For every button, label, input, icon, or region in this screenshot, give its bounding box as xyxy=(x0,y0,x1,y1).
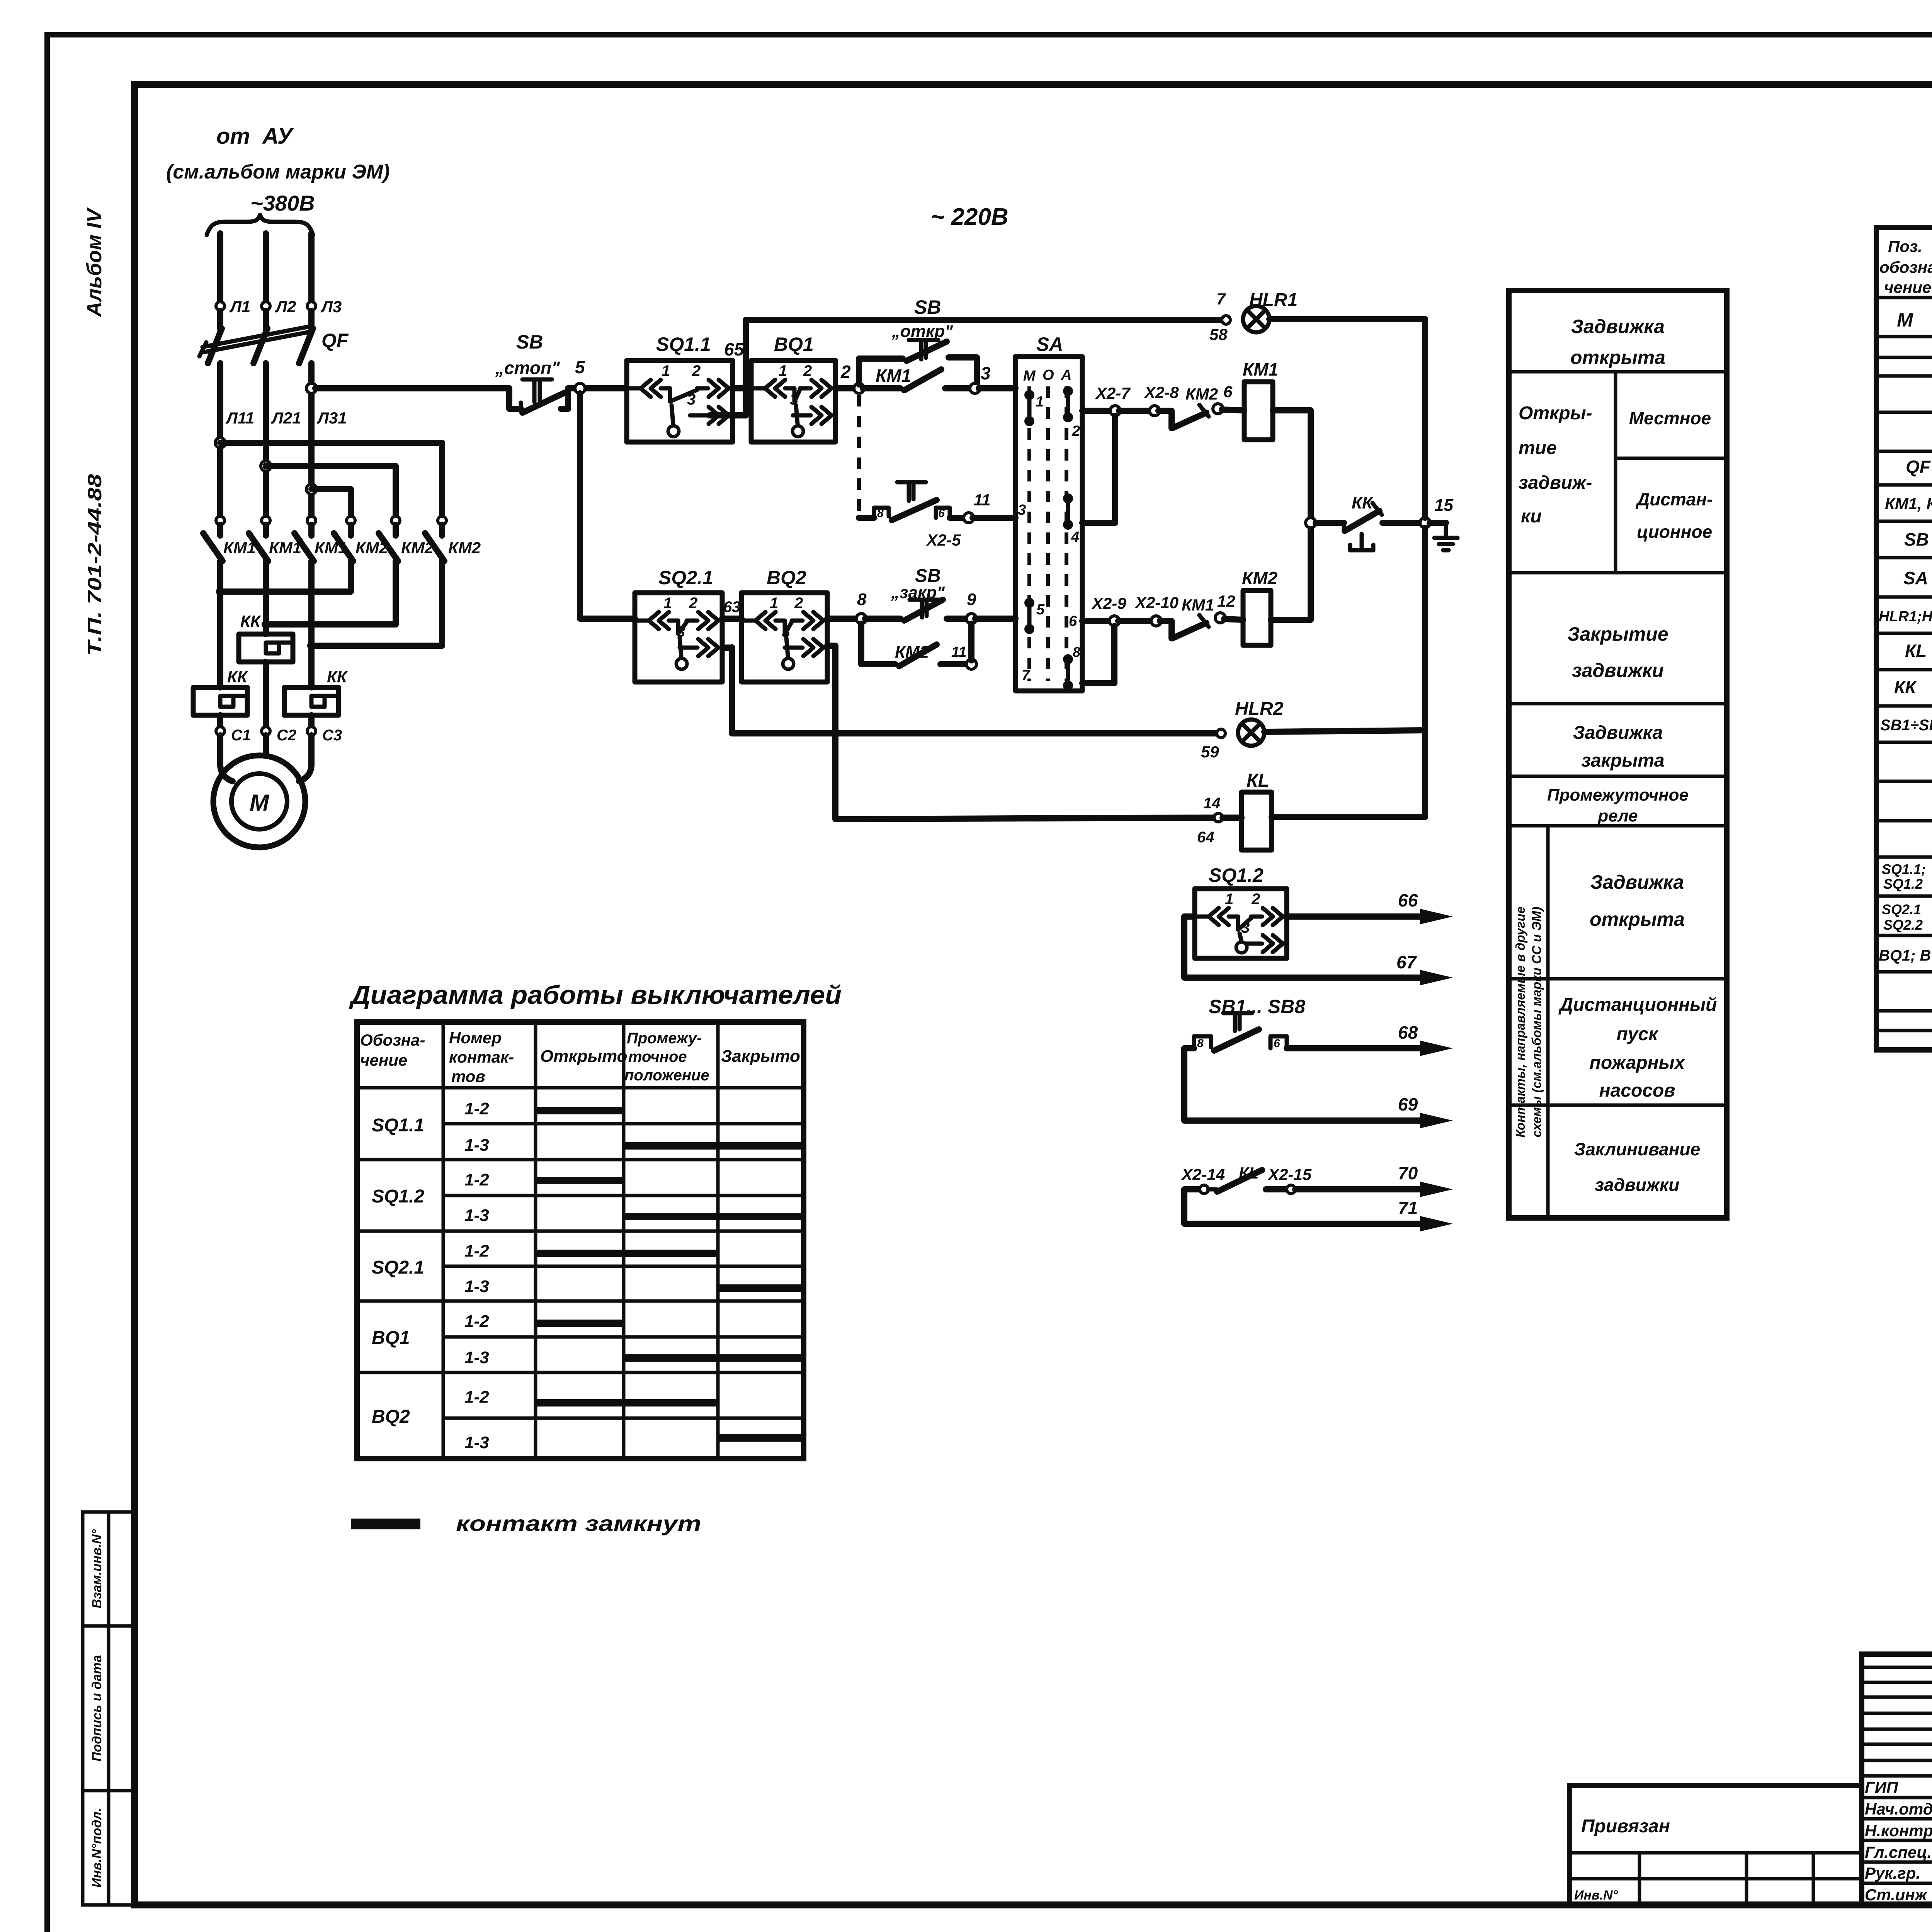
svg-text:Ст.инж: Ст.инж xyxy=(1865,1886,1928,1904)
svg-text:SA: SA xyxy=(1903,568,1928,588)
svg-text:реле: реле xyxy=(1597,806,1638,825)
svg-text:ВQ2: ВQ2 xyxy=(372,1406,410,1427)
svg-text:SA: SA xyxy=(1036,333,1063,355)
svg-text:задвижки: задвижки xyxy=(1572,660,1664,681)
svg-text:63: 63 xyxy=(723,599,741,616)
signature rows xyxy=(1865,1778,1932,1904)
node 9 xyxy=(966,590,1015,624)
svg-text:КМ1: КМ1 xyxy=(1243,359,1278,379)
pole link B xyxy=(262,561,396,629)
voltage label 380V xyxy=(250,191,315,215)
svg-text:Л2: Л2 xyxy=(275,298,296,316)
svg-text:ки: ки xyxy=(1521,506,1542,527)
svg-text:2: 2 xyxy=(1251,891,1260,908)
svg-text:КК: КК xyxy=(1352,493,1374,512)
svg-text:Н.контр: Н.контр xyxy=(1865,1821,1932,1840)
svg-text:1: 1 xyxy=(779,362,787,379)
function table texts xyxy=(1513,316,1717,1195)
svg-text:КК: КК xyxy=(327,668,348,686)
switching diagram title xyxy=(349,980,842,1010)
svg-text:М: М xyxy=(1023,368,1036,384)
svg-text:контакт замкнут: контакт замкнут xyxy=(456,1511,701,1536)
svg-text:обозна-: обозна- xyxy=(1879,258,1932,276)
ground 15 xyxy=(1420,496,1458,550)
wire SA to X2-9 xyxy=(1082,594,1126,626)
svg-text:1: 1 xyxy=(770,595,778,612)
svg-text:4: 4 xyxy=(1071,529,1079,545)
svg-text:положение: положение xyxy=(624,1067,709,1084)
node L11 L21 L31 labels xyxy=(225,409,347,427)
svg-text:КМ1: КМ1 xyxy=(223,539,256,557)
thermal relay KK heater pole2 xyxy=(239,612,293,726)
aux contact KM1 self-hold xyxy=(863,366,971,390)
svg-text:1-3: 1-3 xyxy=(464,1348,489,1367)
svg-text:А: А xyxy=(1061,367,1071,383)
svg-text:Закрыто: Закрыто xyxy=(721,1047,800,1066)
svg-text:58: 58 xyxy=(1209,325,1228,344)
svg-text:6: 6 xyxy=(1223,383,1233,401)
wire KM1 coil to common xyxy=(1273,410,1311,518)
svg-text:15: 15 xyxy=(1434,496,1453,515)
svg-text:3: 3 xyxy=(790,391,798,408)
svg-text:чение: чение xyxy=(360,1051,407,1069)
svg-text:Гл.спец.: Гл.спец. xyxy=(1865,1843,1932,1861)
wire 71 xyxy=(1184,1189,1453,1231)
svg-text:КМ2: КМ2 xyxy=(355,539,388,557)
limit switch SQ1.1 xyxy=(627,333,733,442)
svg-text:Нач.отд: Нач.отд xyxy=(1865,1800,1932,1818)
svg-text:3: 3 xyxy=(1018,502,1026,518)
attachment table xyxy=(1570,1786,1862,1905)
svg-text:КМ2: КМ2 xyxy=(1242,568,1278,588)
svg-text:3: 3 xyxy=(677,623,685,640)
svg-text:SB: SB xyxy=(516,331,543,353)
svg-text:КL: КL xyxy=(1905,641,1927,661)
wire node5 down to close rung xyxy=(580,393,635,619)
svg-text:1-2: 1-2 xyxy=(464,1099,489,1118)
svg-text:Привязан: Привязан xyxy=(1581,1816,1670,1837)
motor terminals C1 C2 C3 xyxy=(216,727,342,744)
svg-text:59: 59 xyxy=(1201,743,1219,761)
wire SA to X2-7 xyxy=(1082,384,1131,416)
node tap L3 to control xyxy=(306,383,316,393)
svg-text:КМ2: КМ2 xyxy=(401,539,434,557)
svg-text:насосов: насосов xyxy=(1599,1080,1675,1101)
svg-text:Х2-15: Х2-15 xyxy=(1267,1165,1312,1184)
svg-text:SQ1.1: SQ1.1 xyxy=(372,1115,424,1136)
svg-text:6: 6 xyxy=(938,507,945,520)
wire riser HLR2 xyxy=(732,647,1217,733)
svg-text:2: 2 xyxy=(1071,423,1080,439)
switching diagram row labels xyxy=(372,1099,489,1452)
svg-text:Номер: Номер xyxy=(449,1029,502,1047)
node 8 xyxy=(827,590,867,624)
svg-text:чение: чение xyxy=(1884,278,1931,296)
svg-text:2: 2 xyxy=(803,362,812,379)
wire BQ2-3 to KL rung xyxy=(827,646,1214,819)
label SB1...SB8 xyxy=(1209,996,1305,1017)
aux contact KM2 NC xyxy=(1158,383,1233,428)
svg-text:SВ1÷SВ8: SВ1÷SВ8 xyxy=(1880,717,1932,734)
svg-text:12: 12 xyxy=(1217,592,1235,610)
svg-text:2: 2 xyxy=(689,595,697,612)
pushbutton SB close xyxy=(865,566,968,621)
svg-text:С3: С3 xyxy=(322,727,342,744)
svg-text:тие: тие xyxy=(1519,438,1557,458)
svg-text:SQ1.2: SQ1.2 xyxy=(1209,864,1264,886)
svg-text:„стоп": „стоп" xyxy=(495,358,560,378)
svg-text:2: 2 xyxy=(794,595,803,612)
svg-text:Х2-9: Х2-9 xyxy=(1091,594,1126,612)
svg-text:Х2-8: Х2-8 xyxy=(1144,383,1179,401)
svg-text:Дистан-: Дистан- xyxy=(1635,489,1713,509)
svg-text:11: 11 xyxy=(951,644,966,660)
svg-text:Задвижка: Задвижка xyxy=(1571,316,1665,337)
wire L3 tap to SB stop xyxy=(315,385,509,391)
dashed wire node2 to SB1-SB8 xyxy=(857,395,861,518)
bracket X2-9 to SA contact8 xyxy=(1082,626,1114,683)
svg-text:задвиж-: задвиж- xyxy=(1519,473,1592,493)
pushbutton SB open bypass xyxy=(859,296,977,388)
svg-text:1-3: 1-3 xyxy=(464,1433,489,1452)
svg-text:тов: тов xyxy=(451,1067,485,1085)
wire SQ2.1-3 to HLR2 rung xyxy=(722,645,732,651)
svg-text:ционное: ционное xyxy=(1637,522,1712,542)
wire L2 down xyxy=(263,386,269,515)
svg-text:~380В: ~380В xyxy=(250,191,315,215)
svg-text:пожарных: пожарных xyxy=(1590,1053,1686,1073)
svg-text:С1: С1 xyxy=(231,727,251,744)
crosswire L2 to KM2 pole xyxy=(261,461,396,515)
svg-text:1-3: 1-3 xyxy=(464,1136,489,1155)
thermal relay KK heater pole1 xyxy=(193,592,248,726)
svg-text:КМ1: КМ1 xyxy=(315,539,347,557)
svg-text:КМ1, КМ2: КМ1, КМ2 xyxy=(1885,495,1932,513)
svg-text:М: М xyxy=(1897,309,1913,331)
svg-text:8: 8 xyxy=(877,507,884,520)
lamp HLR2 xyxy=(1201,699,1425,761)
svg-text:КМ2: КМ2 xyxy=(895,643,929,662)
svg-text:Л1: Л1 xyxy=(229,298,250,316)
circuit breaker QF xyxy=(199,326,349,386)
feeder note ot AU xyxy=(166,124,390,183)
crosswire L3 to KM2 pole xyxy=(306,484,351,515)
svg-text:открыта: открыта xyxy=(1590,908,1685,930)
svg-text:КМ2: КМ2 xyxy=(1185,385,1218,403)
wire KM2 coil to common xyxy=(1271,528,1311,620)
svg-text:1-2: 1-2 xyxy=(464,1170,489,1189)
svg-text:1: 1 xyxy=(1225,891,1233,908)
svg-text:68: 68 xyxy=(1398,1022,1418,1043)
relay contact KL row 70 xyxy=(1181,1163,1453,1197)
svg-text:КК: КК xyxy=(240,612,262,630)
svg-text:„откр": „откр" xyxy=(891,322,953,341)
svg-text:Заклинивание: Заклинивание xyxy=(1574,1139,1700,1159)
svg-text:BQ1: BQ1 xyxy=(774,333,814,355)
svg-text:открыта: открыта xyxy=(1570,347,1665,368)
coil KM1 xyxy=(1222,359,1278,440)
wire L1 down xyxy=(217,386,223,515)
svg-text:Задвижка: Задвижка xyxy=(1590,871,1684,893)
svg-text:закрыта: закрыта xyxy=(1581,750,1664,771)
pushbutton SB stop xyxy=(495,331,568,413)
svg-text:8: 8 xyxy=(1197,1037,1204,1050)
svg-text:SQ1.1: SQ1.1 xyxy=(656,333,711,355)
svg-text:SQ2.1: SQ2.1 xyxy=(1882,901,1921,917)
svg-text:SQ1.2: SQ1.2 xyxy=(1883,876,1923,892)
svg-text:1-2: 1-2 xyxy=(464,1312,489,1331)
bracket X2-7 to SA contact4 xyxy=(1082,416,1115,523)
svg-text:контак-: контак- xyxy=(449,1048,514,1066)
pole link C xyxy=(307,561,442,650)
svg-text:от АУ: от АУ xyxy=(216,124,294,149)
svg-text:Обозна-: Обозна- xyxy=(360,1031,425,1049)
svg-text:Откры-: Откры- xyxy=(1519,403,1592,423)
phase wires L1 L2 L3 xyxy=(216,233,342,329)
title block grid xyxy=(1862,1654,1932,1905)
svg-text:9: 9 xyxy=(967,590,976,609)
margin stamp boxes xyxy=(83,1512,134,1905)
svg-text:2: 2 xyxy=(692,362,701,379)
svg-text:1-3: 1-3 xyxy=(464,1206,489,1225)
svg-text:BQ2: BQ2 xyxy=(767,567,806,588)
svg-text:1-2: 1-2 xyxy=(464,1242,489,1260)
svg-text:схемы (см.альбомы марки СС и Э: схемы (см.альбомы марки СС и ЭМ) xyxy=(1529,906,1544,1137)
selector switch SA xyxy=(1015,333,1082,691)
svg-text:5: 5 xyxy=(1036,602,1045,618)
svg-text:5: 5 xyxy=(575,357,585,377)
wire 67 xyxy=(1184,917,1453,985)
svg-text:Х2-14: Х2-14 xyxy=(1181,1165,1225,1184)
svg-text:КК: КК xyxy=(227,668,248,686)
svg-text:2: 2 xyxy=(840,362,851,382)
svg-text:Альбом IV: Альбом IV xyxy=(83,207,106,318)
svg-text:Х2-7: Х2-7 xyxy=(1095,384,1131,402)
contactor main contacts KM1 KM2 xyxy=(203,516,481,565)
svg-text:1: 1 xyxy=(663,595,672,612)
brace over phases xyxy=(207,215,313,235)
svg-text:14: 14 xyxy=(1203,795,1221,812)
coupling switch BQ2 xyxy=(742,567,827,682)
switching diagram closed bars xyxy=(536,1107,804,1442)
function table column xyxy=(1509,291,1727,1218)
svg-text:3: 3 xyxy=(782,623,790,640)
svg-text:1: 1 xyxy=(1036,394,1044,410)
aux contact KM1 NC xyxy=(1160,592,1235,638)
svg-text:пуск: пуск xyxy=(1616,1024,1659,1044)
svg-text:Х2-10: Х2-10 xyxy=(1134,594,1179,612)
svg-text:Т.П. 701-2-44.88: Т.П. 701-2-44.88 xyxy=(84,474,105,656)
relay coil KL xyxy=(1197,770,1425,850)
switching diagram header xyxy=(360,1029,800,1085)
svg-text:О: О xyxy=(1043,367,1054,383)
svg-text:QF: QF xyxy=(321,330,349,351)
svg-text:Открыто: Открыто xyxy=(540,1047,628,1066)
wire 69 xyxy=(1184,1048,1453,1128)
svg-text:ГИП: ГИП xyxy=(1865,1778,1898,1796)
node 2 xyxy=(835,362,864,393)
svg-text:Х2-5: Х2-5 xyxy=(926,531,961,549)
pole link A xyxy=(216,561,351,596)
switching diagram grid xyxy=(357,1022,804,1459)
svg-text:SQ2.2: SQ2.2 xyxy=(1883,917,1923,933)
svg-text:Промежу-: Промежу- xyxy=(627,1030,702,1047)
svg-text:1-2: 1-2 xyxy=(464,1388,489,1406)
top rung wire to HLR1 xyxy=(746,317,1222,323)
svg-text:HLR2: HLR2 xyxy=(1235,699,1284,719)
voltage label 220V xyxy=(930,204,1009,230)
svg-text:задвижки: задвижки xyxy=(1595,1175,1680,1195)
element list table grid xyxy=(1876,228,1932,1050)
lamp HLR1 xyxy=(1209,290,1425,344)
pushbutton SB1...SB8 start xyxy=(859,482,1015,549)
svg-text:Закрытие: Закрытие xyxy=(1567,623,1668,645)
node 5 xyxy=(568,357,627,393)
svg-text:Инв.N°: Инв.N° xyxy=(1574,1888,1618,1903)
svg-text:КМ1: КМ1 xyxy=(876,366,911,386)
svg-text:HLR1;HLR2: HLR1;HLR2 xyxy=(1879,609,1932,625)
pushbutton SB1-SB8 contact row 68 xyxy=(1184,1013,1453,1061)
svg-text:КМ2: КМ2 xyxy=(448,539,481,557)
svg-text:точное: точное xyxy=(628,1048,687,1065)
svg-text:КМ1: КМ1 xyxy=(1182,596,1214,614)
node 65 riser to open rung xyxy=(709,320,746,415)
wire X2-7 to X2-8 xyxy=(1119,383,1179,416)
svg-text:(см.альбом марки ЭМ): (см.альбом марки ЭМ) xyxy=(166,161,390,183)
crosswire L1 to KM2 pole xyxy=(215,438,442,515)
svg-text:Л3: Л3 xyxy=(320,298,342,316)
svg-text:69: 69 xyxy=(1398,1094,1418,1114)
wire 66 xyxy=(1287,890,1453,924)
svg-text:8: 8 xyxy=(1073,644,1080,660)
svg-text:1: 1 xyxy=(662,362,670,379)
svg-text:С2: С2 xyxy=(277,727,296,744)
svg-text:3: 3 xyxy=(687,391,696,408)
svg-text:КL: КL xyxy=(1247,770,1269,791)
svg-text:1-3: 1-3 xyxy=(464,1277,489,1296)
svg-text:71: 71 xyxy=(1398,1198,1418,1218)
element list header xyxy=(1879,237,1932,296)
node 63 xyxy=(722,599,742,619)
right return rail xyxy=(1422,319,1428,817)
svg-text:Задвижка: Задвижка xyxy=(1573,723,1663,743)
element list rows xyxy=(1879,304,1932,968)
svg-text:Местное: Местное xyxy=(1629,408,1711,428)
svg-text:Л11: Л11 xyxy=(225,409,254,427)
svg-text:HLR1: HLR1 xyxy=(1249,290,1298,310)
svg-text:SQ2.1: SQ2.1 xyxy=(658,567,713,588)
svg-text:„закр": „закр" xyxy=(891,583,945,602)
svg-text:Подпись и дата: Подпись и дата xyxy=(90,1655,104,1762)
node 3 xyxy=(970,363,1015,393)
svg-text:11: 11 xyxy=(974,491,991,509)
limit switch SQ1.2 xyxy=(1195,864,1287,958)
coupling switch BQ1 xyxy=(751,333,835,442)
svg-text:ВQ1: ВQ1 xyxy=(372,1328,410,1348)
svg-text:3: 3 xyxy=(1241,919,1250,936)
coil KM2 xyxy=(1224,568,1278,645)
thermal relay KK heater pole3 xyxy=(284,646,348,726)
svg-text:7: 7 xyxy=(1216,290,1226,308)
svg-text:SB: SB xyxy=(914,296,941,318)
svg-text:6: 6 xyxy=(1274,1037,1280,1050)
legend contact closed xyxy=(351,1511,701,1536)
margin label Album IV xyxy=(83,207,106,318)
svg-text:Контакты, направляемые в други: Контакты, направляемые в другие xyxy=(1513,906,1527,1138)
svg-text:Диаграмма работы выключателей: Диаграмма работы выключателей xyxy=(349,980,842,1010)
margin label T.P.701-2-44.88 xyxy=(84,474,105,656)
svg-text:SQ2.1: SQ2.1 xyxy=(372,1257,424,1278)
svg-text:Л21: Л21 xyxy=(271,409,301,427)
svg-text:3: 3 xyxy=(981,363,991,383)
svg-text:SQ1.1;: SQ1.1; xyxy=(1882,861,1926,877)
svg-text:7: 7 xyxy=(1022,667,1031,684)
svg-text:SB: SB xyxy=(1904,529,1929,549)
svg-text:КК: КК xyxy=(1894,677,1917,697)
wire SQ1.1 to BQ1 xyxy=(733,385,751,391)
svg-text:КМ1: КМ1 xyxy=(269,539,301,557)
svg-text:SQ1.2: SQ1.2 xyxy=(372,1186,424,1207)
motor M xyxy=(213,735,311,847)
svg-text:8: 8 xyxy=(857,590,867,609)
svg-text:Л31: Л31 xyxy=(316,409,347,427)
svg-text:65: 65 xyxy=(724,339,745,359)
svg-text:6: 6 xyxy=(1069,613,1077,629)
svg-text:Рук.гр.: Рук.гр. xyxy=(1865,1864,1920,1882)
wire L3 down xyxy=(308,386,315,515)
node common coils xyxy=(1306,518,1344,528)
svg-text:64: 64 xyxy=(1197,829,1214,846)
svg-text:67: 67 xyxy=(1396,952,1417,972)
svg-text:М: М xyxy=(250,790,270,816)
svg-text:Поз.: Поз. xyxy=(1888,237,1922,255)
aux contact KM2 bypass xyxy=(861,624,976,669)
svg-text:ВQ1; ВQ2: ВQ1; ВQ2 xyxy=(1879,947,1932,964)
svg-text:66: 66 xyxy=(1398,890,1418,910)
svg-text:Инв.N°подл.: Инв.N°подл. xyxy=(90,1808,104,1888)
limit switch SQ2.1 xyxy=(635,567,722,682)
svg-text:70: 70 xyxy=(1398,1163,1418,1183)
wire X2-9 to X2-10 xyxy=(1118,594,1179,626)
thermal relay KK trip contact xyxy=(1344,493,1421,550)
svg-text:Промежуточное: Промежуточное xyxy=(1547,786,1689,804)
svg-text:~ 220В: ~ 220В xyxy=(930,204,1009,230)
svg-text:Дистанционный: Дистанционный xyxy=(1558,995,1717,1015)
svg-text:Взам.инв.N°: Взам.инв.N° xyxy=(90,1529,104,1608)
svg-text:QF: QF xyxy=(1906,457,1931,477)
